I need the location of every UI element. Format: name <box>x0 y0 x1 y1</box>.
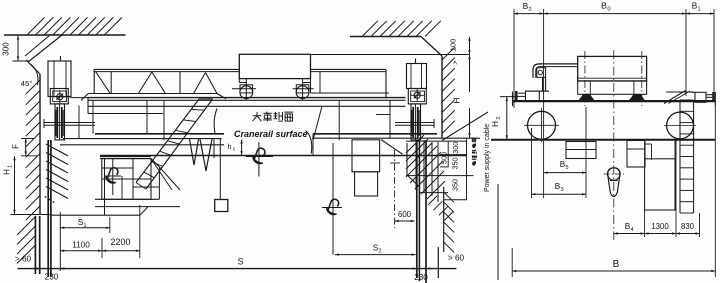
svg-text:830: 830 <box>681 222 695 231</box>
ladder rungs <box>199 98 213 100</box>
hook B <box>254 148 265 159</box>
trolley wheel right <box>296 85 309 93</box>
top dim ext lines <box>513 9 515 108</box>
svg-text:1100: 1100 <box>72 241 90 250</box>
baseline S line <box>18 268 457 270</box>
drum foot right <box>629 94 645 101</box>
girder lower line left seg <box>63 138 222 140</box>
cable leader diagonal <box>442 112 488 141</box>
left wall corbel dots <box>45 196 47 198</box>
svg-text:300: 300 <box>451 142 460 154</box>
ceiling hatch top-left <box>27 17 45 35</box>
dim B1 <box>686 13 714 15</box>
end carriage top plate <box>513 100 716 102</box>
drum centerline right <box>641 51 643 106</box>
hook C <box>328 199 339 210</box>
end carriage bottom rail line <box>491 139 715 141</box>
right truck axle box <box>408 89 426 104</box>
svg-text:h: h <box>228 144 232 151</box>
svg-text:2: 2 <box>528 7 531 13</box>
right bracket lower hatch <box>428 196 437 205</box>
ceiling line top right <box>350 36 421 38</box>
dim F left <box>25 139 27 156</box>
crane rail surface datum <box>100 155 467 157</box>
girder taper mid-right <box>313 106 322 140</box>
left wall corbel hatch strip <box>46 144 68 156</box>
left buffer box <box>526 91 540 101</box>
truss diagonal 1 <box>96 72 111 94</box>
svg-text:H: H <box>452 97 462 103</box>
dimension 300 line <box>17 36 19 61</box>
hook A <box>107 168 118 179</box>
dim B3 <box>532 193 587 195</box>
trolley cab box <box>239 54 310 78</box>
dim H1 <box>14 156 16 214</box>
trolley wheel left <box>240 85 253 93</box>
cable zone vertical <box>497 184 499 280</box>
svg-text:1300: 1300 <box>651 222 669 231</box>
S dim arrows <box>36 267 40 269</box>
right buffer cap <box>712 92 714 101</box>
drum lower frame <box>578 81 647 94</box>
left wall edge <box>39 74 41 215</box>
right truck lower frame <box>395 122 434 124</box>
left buffer stems <box>518 92 526 94</box>
svg-text:500: 500 <box>440 152 449 164</box>
svg-text:1: 1 <box>697 7 700 13</box>
left bracket top second line <box>100 158 151 160</box>
svg-text:0: 0 <box>607 7 610 13</box>
svg-text:H: H <box>3 169 12 175</box>
hook C hanger <box>332 143 334 255</box>
dim H line <box>469 55 471 92</box>
svg-text:45°: 45° <box>21 79 32 88</box>
svg-text:230: 230 <box>45 273 59 282</box>
drum centerline left <box>584 51 586 106</box>
dim B <box>512 270 715 272</box>
ladder rails right view <box>679 100 681 213</box>
right wheel axle <box>414 92 420 98</box>
right buffer stems <box>706 94 714 96</box>
girder lower line right seg <box>312 137 480 139</box>
truss A-frame 1 <box>138 72 152 94</box>
girder mid line right stub <box>376 114 390 116</box>
svg-text:B: B <box>613 259 620 270</box>
label CJK cranerail <box>253 115 261 117</box>
left wheel axle <box>57 94 63 100</box>
svg-text:5: 5 <box>565 165 568 171</box>
left platform top <box>100 156 151 158</box>
right buffer box <box>695 92 706 102</box>
dim 830 <box>676 233 700 235</box>
2200 dim <box>102 250 140 252</box>
left platform lower <box>95 198 160 200</box>
girder stiffener d <box>389 100 391 138</box>
left platform box <box>102 159 151 200</box>
left platform diagonals <box>151 159 172 190</box>
festoon zigzag <box>190 139 213 171</box>
power cable CJK <box>472 161 475 165</box>
tall frame box <box>645 159 675 210</box>
dim B2 <box>514 13 544 15</box>
hook block inner line <box>610 180 618 182</box>
svg-text:300: 300 <box>2 42 11 56</box>
drum box inner line <box>578 77 647 79</box>
walkway left post <box>93 69 95 93</box>
ladder rail 1 <box>146 99 213 189</box>
ext lines 1100 2200 <box>101 238 103 258</box>
svg-text:350: 350 <box>451 179 460 191</box>
walkway handrail left <box>94 68 240 70</box>
hoist housing diagonal <box>381 140 403 155</box>
chain dim line <box>466 138 468 200</box>
svg-text:H: H <box>491 121 500 127</box>
right column line <box>425 140 427 283</box>
left truck lower frame <box>44 122 95 124</box>
left wall hatch <box>26 80 40 94</box>
railing posts right <box>385 69 387 98</box>
bottom ext lines right view <box>644 210 646 237</box>
svg-text:S: S <box>238 257 244 267</box>
right bracket boundary <box>406 143 408 175</box>
girder left end <box>87 98 89 114</box>
girder stiffener b <box>163 100 165 140</box>
svg-text:230: 230 <box>414 273 428 282</box>
right bracket grid v <box>415 140 417 190</box>
girder connect line left <box>71 97 89 99</box>
truss post 1 <box>110 72 112 94</box>
pipe stand <box>542 77 544 91</box>
svg-text:>: > <box>451 60 460 65</box>
drum foot left <box>579 94 595 101</box>
svg-text:F: F <box>12 144 21 149</box>
svg-text:2: 2 <box>496 117 502 120</box>
dash-dot ref 600 <box>394 150 396 228</box>
girder pad line <box>60 144 224 146</box>
hoist drum box <box>578 56 647 81</box>
end carriage right edge <box>714 92 716 106</box>
right bracket hatch <box>406 135 424 153</box>
crane top ext line <box>311 54 470 56</box>
1100 dim <box>60 250 102 252</box>
svg-text:350: 350 <box>451 158 460 170</box>
cable pipe inner <box>536 67 578 78</box>
pendant drop line <box>219 139 221 200</box>
leader cranerail surface <box>306 131 312 154</box>
girder bottom flange left seg <box>95 133 224 135</box>
side wheel right <box>667 112 694 139</box>
left column pair <box>34 216 36 274</box>
ceiling corner diagonal <box>421 37 442 57</box>
ladder rail 2 <box>136 99 199 183</box>
building ceiling line top-left <box>4 34 126 36</box>
right truck cylinder <box>411 104 421 140</box>
svg-text:100: 100 <box>449 39 458 52</box>
hook block body <box>608 168 620 197</box>
leader cjk craneral <box>214 109 217 134</box>
right bracket grid h <box>406 140 467 142</box>
cable pipe outer <box>533 64 578 78</box>
right end truck frame <box>407 64 427 89</box>
svg-text:> 60: > 60 <box>15 255 32 264</box>
chain dim 500 line <box>447 141 449 167</box>
dim B5 <box>544 172 586 174</box>
left truck cylinder <box>55 104 65 140</box>
left end truck upper frame <box>48 61 71 97</box>
left end truck axle box <box>50 89 68 104</box>
dim >100 <box>469 37 471 54</box>
hoist housing upper box <box>352 140 380 172</box>
dim B4 <box>614 233 645 235</box>
left crane rail pair <box>47 140 49 277</box>
end carriage left edge <box>512 92 514 106</box>
right wall hatch ticks <box>442 47 455 60</box>
walkway handrail right <box>311 68 387 70</box>
hanging box mid <box>627 141 645 168</box>
pendant control box <box>215 200 228 212</box>
dim B0 <box>544 13 686 15</box>
girder stiffener c <box>338 100 340 140</box>
railing bottom rail right <box>311 92 390 94</box>
H2 ext line <box>500 96 518 98</box>
hoist housing lower box <box>355 172 378 196</box>
right buffer bracket <box>666 91 694 93</box>
B3 ext line <box>531 128 533 198</box>
hook centerline <box>613 50 615 240</box>
svg-text:4: 4 <box>630 227 633 233</box>
B ext lines <box>511 248 513 277</box>
svg-text:1: 1 <box>83 223 86 229</box>
girder bottom flange right seg <box>313 133 437 135</box>
hook block pulley <box>608 168 620 180</box>
girder top flange <box>88 97 406 99</box>
walkway bottom chord <box>88 93 217 95</box>
svg-text:1: 1 <box>8 165 14 168</box>
right lower ext line <box>437 247 439 278</box>
left wall hatch below <box>17 216 36 235</box>
truss post 2 <box>179 72 181 94</box>
svg-text:3: 3 <box>560 187 563 193</box>
truss A-frame 2 <box>194 73 206 94</box>
svg-text:Cranerail surface: Cranerail surface <box>234 129 308 139</box>
trolley cab feet <box>238 79 240 83</box>
dim 600 <box>395 220 415 222</box>
S2 dim <box>335 254 416 256</box>
svg-text:Power supply in cable: Power supply in cable <box>484 124 491 192</box>
right wall edge <box>441 56 443 138</box>
dim hc <box>241 140 243 156</box>
left buffer cap <box>515 91 517 101</box>
pipe fitting <box>537 68 546 78</box>
ceiling hatch right <box>362 21 378 37</box>
right crane rail pair <box>416 140 418 278</box>
svg-text:600: 600 <box>398 210 412 219</box>
hanging box left <box>566 142 596 159</box>
S1 dim <box>60 227 110 229</box>
svg-text:B: B <box>601 1 607 11</box>
tall frame top lines <box>644 141 646 159</box>
svg-text:2200: 2200 <box>110 237 130 247</box>
side wheel left <box>528 111 556 139</box>
right wall mid edge <box>443 187 445 252</box>
hook B hanger <box>258 142 260 176</box>
ceiling corner chamfer lines <box>28 35 62 62</box>
ladder rungs right view <box>680 99 694 101</box>
left S extension line <box>59 212 61 271</box>
hook A hanger <box>112 159 114 195</box>
dim 1300 <box>645 233 676 235</box>
svg-text:2: 2 <box>378 249 381 255</box>
H2 dim <box>506 97 508 139</box>
girder stiffener a <box>146 100 148 134</box>
svg-text:> 60: > 60 <box>448 254 465 263</box>
